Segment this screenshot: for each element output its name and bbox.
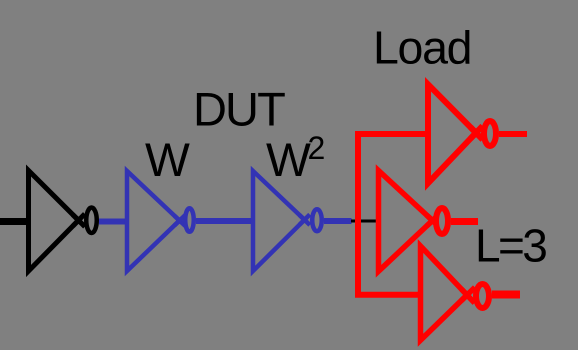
wire W to W2 (196, 218, 253, 224)
wire input to driver (0, 218, 29, 225)
bubble of top load inverter (484, 121, 496, 146)
svg-text:W: W (145, 134, 190, 187)
bubble of driver inverter (86, 208, 97, 234)
inverter load bottom (red) triangle (421, 246, 468, 340)
inverter W2 (blue) triangle (253, 171, 305, 271)
bubble of W2 inverter (312, 209, 322, 231)
svg-text:2: 2 (308, 130, 326, 166)
wire W2 output (blue) (324, 218, 352, 224)
inverter load middle (red) triangle (379, 171, 433, 272)
bubble of bottom load inverter (476, 284, 489, 308)
bubble of middle load inverter (436, 208, 448, 234)
wire top load output (499, 131, 527, 137)
svg-text:L=3: L=3 (475, 220, 546, 272)
wire bottom load output (492, 291, 520, 299)
svg-text:DUT: DUT (193, 83, 285, 136)
svg-text:Load: Load (373, 22, 471, 74)
wire driver to W inverter (99, 219, 126, 225)
inverter driver (black) triangle (29, 171, 79, 272)
svg-text:W: W (266, 134, 311, 187)
wire middle load output (451, 218, 478, 225)
wire node to load rail (black) (351, 220, 379, 223)
bubble of W inverter (185, 208, 194, 232)
inverter load top (red) triangle (428, 84, 476, 183)
inverter W (blue) triangle (127, 171, 180, 271)
wire load rail (red) (358, 134, 429, 295)
